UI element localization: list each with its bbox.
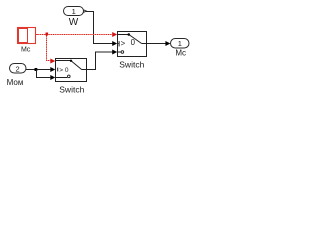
svg-text:W: W (69, 17, 79, 28)
arrowhead into Switch1 port3 (50, 75, 55, 80)
red junction node (46, 33, 49, 36)
switch U1 (lower Switch) (56, 59, 87, 95)
red wire Mc to Switch (dotted horizontal) (38, 34, 112, 36)
block Mc (red, highlighted) (18, 28, 38, 54)
svg-text:0: 0 (131, 38, 136, 47)
arrowhead into outport Mc (165, 41, 170, 46)
arrowhead into Switch1 port2 (50, 67, 55, 72)
svg-text:2: 2 (16, 65, 20, 74)
junction node on Mom wire (35, 68, 38, 71)
svg-text:Mc: Mc (21, 47, 31, 54)
wire Switch output to outport Mc (147, 43, 166, 45)
inport Mom (7, 64, 26, 87)
svg-text:1: 1 (178, 39, 182, 48)
red wire junction down to Switch1 port1 (dotted vertical) (47, 36, 51, 61)
svg-text:Switch: Switch (119, 60, 144, 70)
red arrowhead into Switch1 port1 (50, 59, 55, 64)
svg-text:Мом: Мом (7, 78, 24, 87)
switch U2 (upper Switch) (118, 32, 147, 70)
arrowhead into Switch port2 (112, 41, 117, 46)
wire junction down to Switch1 port3 (37, 70, 51, 78)
arrowhead into Switch port3 (112, 50, 117, 55)
svg-text:Mc: Mc (175, 49, 186, 58)
wire Mom to Switch1 port2 (26, 69, 50, 71)
svg-text:> 0: > 0 (59, 67, 69, 74)
outport Mc (171, 39, 190, 58)
wire Switch1 output to Switch port3 (87, 52, 113, 70)
svg-text:Switch: Switch (59, 85, 84, 95)
red arrowhead into Switch port1 (112, 32, 117, 37)
svg-text:1: 1 (72, 7, 76, 16)
inport W (64, 7, 87, 29)
wire W to Switch upper port2 (86, 12, 112, 44)
svg-text:>: > (121, 39, 126, 48)
